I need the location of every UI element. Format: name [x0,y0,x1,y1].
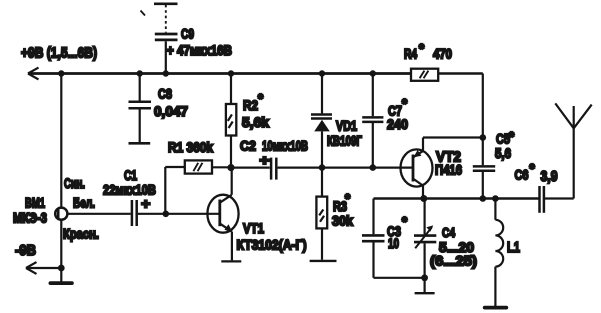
node rail-C8 [137,70,143,76]
node VT2 collector-tank [420,195,427,202]
svg-text:(6...25): (6...25) [430,253,477,269]
wire VT2 collector down [422,186,424,199]
svg-text:3,9: 3,9 [541,168,558,185]
ground mic [50,281,72,285]
capacitor C3 [362,199,385,278]
capacitor C5 [473,166,495,198]
svg-text:C6: C6 [515,166,529,182]
node rail-C7 [370,70,376,76]
node rail-R2 [228,70,234,76]
svg-text:+9В (1,5...6В): +9В (1,5...6В) [21,46,97,62]
node R1 tap [163,211,170,218]
ground C4 [415,292,435,294]
capacitor C9 [154,4,178,74]
wire R1 left leg [165,167,185,214]
node rail-mic [58,70,64,76]
capacitor C2 [231,158,276,180]
capacitor C8 [129,74,152,144]
capacitor C6 [540,186,574,213]
wire C1 to VT1 base [138,213,219,215]
svg-text:C4: C4 [442,225,456,240]
svg-text:+: + [141,196,150,212]
transistor VT1 [207,195,238,233]
svg-text:C2: C2 [240,138,256,154]
transistor VT2 [401,149,433,186]
wire VT1 emitter [231,232,233,261]
svg-text:ВМ1: ВМ1 [25,195,45,211]
microphone BM1 [55,208,67,220]
node rail-VD1 [319,70,325,76]
svg-text:Син.: Син. [64,175,85,191]
svg-text:R4: R4 [404,45,417,61]
inductor L1 [495,199,503,307]
wire R2 bottom [230,136,232,168]
resistor R1 [185,160,212,173]
svg-text:КВ109Г: КВ109Г [327,132,362,148]
svg-text:R2: R2 [243,97,258,113]
svg-text:+ 47мкх16В: + 47мкх16В [167,42,232,58]
ground L1 [485,306,507,310]
node C7-base [370,164,377,171]
capacitor C7 [362,74,383,168]
wire tank bottom [374,277,425,279]
wire tank top line [374,197,539,199]
wire R4 to C5 [438,74,483,166]
wire R1 right leg [212,166,231,168]
svg-text:+: + [260,152,270,168]
antenna WA1 [555,103,591,198]
node L1 top [492,195,499,202]
svg-text:VD1: VD1 [336,117,357,133]
wire VT2 emitter up [423,138,483,151]
wire -9V arrow to mic line [26,267,61,269]
svg-text:VT1: VT1 [243,220,264,236]
wire mic to C1 [67,213,130,215]
wire VT1 collector [231,168,233,195]
node -9V junction [58,265,65,272]
svg-text:-9В: -9В [15,242,36,259]
capacitor C4 trimmer [414,199,436,293]
svg-text:C8: C8 [158,86,172,102]
power arrow +9V [28,68,39,80]
wire mic below to ground [60,220,62,282]
node C5 bottom [480,195,487,202]
stray tick [141,11,146,16]
wire C2 to VT2 base [278,166,413,168]
node C4 ground junction [421,274,428,281]
svg-text:470: 470 [433,45,452,61]
svg-text:КТ3102(А-Г): КТ3102(А-Г) [237,237,307,253]
node VT2 emitter wire [480,134,487,141]
svg-text:Красн.: Красн. [63,226,99,242]
svg-text:5,6k: 5,6k [242,114,269,130]
node VT1 collector [227,164,234,171]
svg-text:C9: C9 [181,27,194,42]
svg-text:L1: L1 [507,239,520,256]
resistor R3 [316,168,327,260]
varicap VD1 [311,74,332,168]
svg-text:10: 10 [388,235,399,251]
resistor R4 [411,69,438,81]
resistor R2 [226,104,236,136]
capacitor C1 [132,200,137,226]
svg-text:Бел.: Бел. [73,195,95,211]
ground VT1 emitter [221,260,241,262]
wire mic vertical from rail [60,74,62,208]
ground R3 [310,260,337,262]
svg-text:П416: П416 [435,162,462,178]
svg-text:240: 240 [387,116,408,132]
power arrow -9V [26,262,37,274]
svg-text:30k: 30k [332,213,353,229]
node VD1-R3 [319,164,326,171]
wire top +9V rail left of R4 [28,72,411,75]
svg-text:R1 360k: R1 360k [168,139,213,155]
wire R2 top [230,74,232,105]
svg-text:0,047: 0,047 [154,103,188,119]
svg-text:5,6: 5,6 [495,145,511,161]
node rail-C9 [163,70,169,76]
svg-text:МКЭ-3: МКЭ-3 [13,210,47,226]
